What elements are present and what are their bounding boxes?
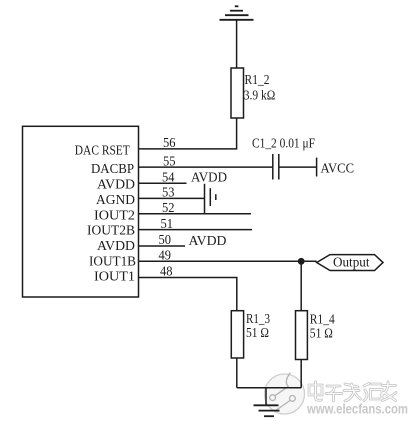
svg-text:R1_2: R1_2 [245,73,270,88]
wire pin 52 [139,213,251,215]
svg-text:AVDD: AVDD [189,234,227,249]
wire pin 48 to R1_3 [139,278,237,311]
svg-text:51: 51 [161,217,174,232]
svg-text:IOUT1B: IOUT1B [89,254,136,269]
wire pin 53 AGND [139,197,205,199]
svg-text:54: 54 [162,171,175,186]
ground GND top [220,6,254,19]
svg-text:AVCC: AVCC [321,162,355,177]
svg-text:AVDD: AVDD [97,178,135,193]
wire ground stem bottom [265,388,267,405]
svg-text:51 Ω: 51 Ω [246,326,269,341]
wire pin 55 to C1_2 [139,166,273,168]
node AVCC terminal bar [316,158,318,177]
svg-text:53: 53 [162,186,175,201]
wire junction to R1_4 [300,261,302,310]
node junction dot pin49/R1_4 [298,258,305,265]
capacitor C1_2 [273,154,279,180]
svg-text:AVDD: AVDD [191,171,227,186]
ground AGND sideways [205,184,216,214]
svg-text:www.elecfans.com: www.elecfans.com [306,402,408,417]
resistor R1_4 [296,311,308,360]
wire pin 54 AVDD [139,182,187,184]
svg-text:DACBP: DACBP [91,162,134,177]
svg-text:DAC RSET: DAC RSET [75,144,130,159]
wire bottom rail [237,387,301,389]
svg-text:C1_2 0.01 μF: C1_2 0.01 μF [252,137,315,152]
svg-text:IOUT2B: IOUT2B [87,224,135,239]
svg-text:IOUT1: IOUT1 [94,270,135,285]
wire ground to R1_2 [236,20,238,68]
wire pin 50 AVDD [139,245,185,247]
wire C1_2 to AVCC [279,166,317,168]
svg-text:IOUT2: IOUT2 [94,208,135,223]
svg-text:50: 50 [159,233,172,248]
svg-text:52: 52 [162,201,175,216]
wire pin 51 [139,229,252,231]
resistor R1_2 [231,68,244,118]
svg-text:Output: Output [333,255,370,270]
ground GND bottom [254,405,280,416]
svg-text:AVDD: AVDD [97,239,135,254]
IC DAC chip box [23,126,139,297]
svg-text:49: 49 [159,249,172,264]
connector Output flag [317,255,383,271]
svg-text:48: 48 [160,265,173,280]
watermark logo circle [265,373,305,415]
wire R1_3 bottom [236,358,238,388]
wire R1_4 bottom [300,360,302,388]
svg-text:3.9 kΩ: 3.9 kΩ [244,89,275,104]
resistor R1_3 [231,311,243,358]
svg-text:R1_3: R1_3 [246,312,270,327]
wire pin 49 to Output [139,260,317,262]
watermark text elecfans chinese [309,382,396,401]
svg-text:55: 55 [163,154,176,169]
svg-text:AGND: AGND [96,193,135,208]
svg-text:56: 56 [163,136,176,151]
svg-text:51 Ω: 51 Ω [310,327,333,342]
wire R1_2 to pin 56 [139,118,237,149]
svg-text:R1_4: R1_4 [310,313,335,328]
